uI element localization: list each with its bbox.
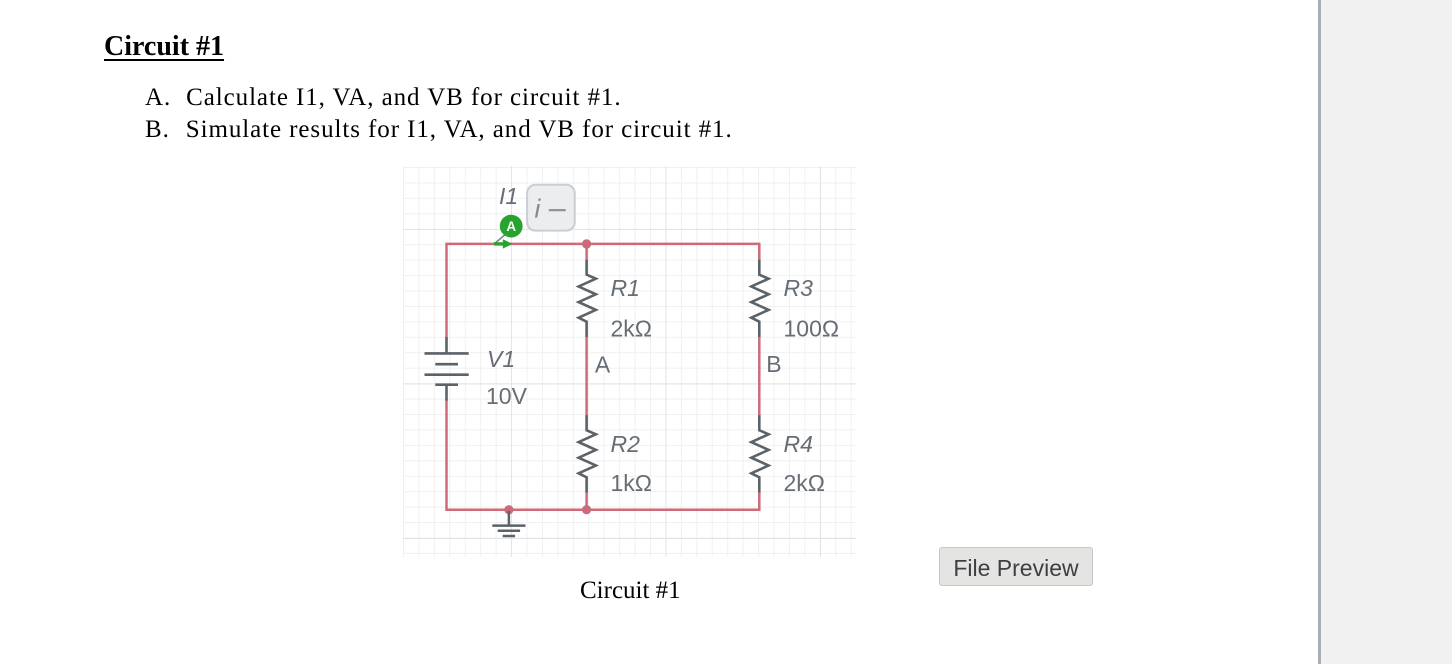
svg-text:R2: R2	[611, 431, 641, 457]
title heading	[104, 31, 224, 63]
svg-text:A: A	[506, 219, 516, 234]
svg-text:R4: R4	[784, 431, 813, 457]
svg-text:10V: 10V	[486, 383, 528, 409]
ground symbol	[492, 511, 525, 536]
resistor R3 body	[751, 260, 768, 337]
ammeter current arrow shaft	[494, 242, 504, 245]
battery V1 symbol	[425, 337, 469, 400]
current probe i-box	[527, 185, 575, 231]
svg-text:A: A	[595, 352, 611, 378]
node junction dot top (R1 top)	[582, 239, 591, 248]
wire: bottom ground net	[447, 399, 760, 509]
schematic grid background	[403, 166, 856, 557]
wire: middle branch top stub	[585, 244, 588, 261]
resistor R2 body	[579, 415, 596, 492]
resistor R1 body	[579, 260, 596, 337]
ammeter probe pointer line	[496, 234, 507, 243]
problem list line B	[145, 116, 733, 144]
svg-text:2kΩ: 2kΩ	[611, 316, 653, 342]
problem list line A	[145, 84, 622, 112]
svg-text:I1: I1	[499, 183, 518, 209]
svg-text:R3: R3	[784, 275, 814, 301]
right gray panel	[1321, 0, 1452, 664]
resistor R4 body	[751, 415, 768, 492]
svg-text:2kΩ: 2kΩ	[784, 470, 826, 496]
svg-text:V1: V1	[487, 346, 515, 372]
figure caption	[580, 577, 681, 605]
wire: right branch between R3 and R4 (node B)	[758, 336, 761, 417]
ammeter green circle	[500, 215, 523, 238]
node junction dot bottom middle	[582, 505, 591, 514]
svg-text:B: B	[766, 351, 781, 377]
right panel divider line	[1318, 0, 1321, 664]
ammeter current arrow head	[503, 239, 513, 248]
File Preview button	[939, 547, 1093, 586]
wire: middle branch between R1 and R2 (node A)	[585, 336, 588, 417]
schematic drawing	[403, 166, 856, 557]
wire: top net from V1+ to R1/R3 tops	[447, 244, 760, 339]
svg-text:R1: R1	[611, 275, 640, 301]
i-box dash	[549, 209, 566, 211]
svg-text:1kΩ: 1kΩ	[611, 470, 653, 496]
wire: middle branch bottom stub	[585, 491, 588, 509]
svg-text:100Ω: 100Ω	[784, 316, 840, 342]
node junction dot at ground	[504, 505, 513, 514]
